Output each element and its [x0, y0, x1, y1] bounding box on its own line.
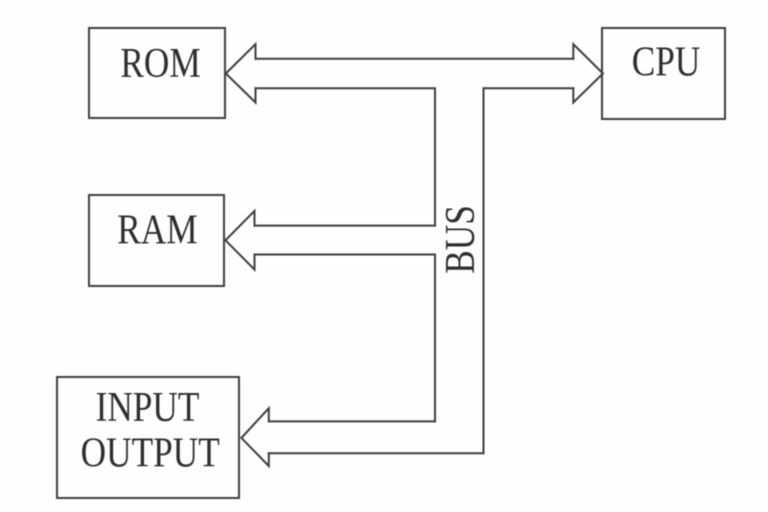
wire: IO arrow top shaft from left bus — [269, 420, 435, 422]
box RAM — [89, 195, 224, 286]
box ROM — [89, 28, 225, 118]
wire: left bus lower segment from RAM arrow down to IO arrow — [255, 255, 436, 422]
wire: top shaft line ROM-CPU — [256, 58, 574, 60]
box INPUT/OUTPUT — [57, 377, 239, 498]
wire: bottom shaft right segment from right bus line — [484, 87, 574, 89]
svg-text:BUS: BUS — [437, 205, 484, 274]
svg-text:RAM: RAM — [117, 207, 197, 254]
box CPU — [602, 28, 725, 119]
svg-text:INPUT: INPUT — [96, 384, 200, 431]
arrowhead into RAM — [226, 211, 255, 270]
svg-text:CPU: CPU — [632, 39, 701, 86]
wire: IO arrow bottom shaft from right bus — [269, 452, 484, 454]
wire: RAM arrow top shaft from left bus — [255, 225, 436, 227]
svg-text:ROM: ROM — [120, 40, 200, 87]
arrowhead into CPU (right end of ROM-CPU bus arrow) — [573, 44, 603, 102]
svg-text:OUTPUT: OUTPUT — [81, 429, 220, 476]
arrowhead into ROM (left end of ROM-CPU bus arrow) — [226, 44, 256, 102]
wire: bottom shaft left segment, turning down into left bus line — [256, 88, 436, 225]
wire: right bus vertical line — [483, 88, 485, 453]
arrowhead into INPUT/OUTPUT — [241, 408, 268, 466]
